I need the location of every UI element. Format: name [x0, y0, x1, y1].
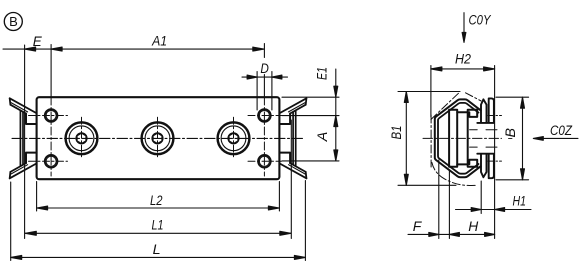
dimension H: [449, 170, 494, 239]
svg-text:A: A: [314, 132, 330, 143]
right clip web: [293, 111, 296, 166]
hole bottom-left: [29, 155, 68, 168]
svg-text:B: B: [9, 14, 18, 29]
dimension E: [3, 33, 51, 239]
right clip blade bottom: [280, 153, 307, 179]
dimension L2: [37, 182, 280, 212]
svg-text:H1: H1: [513, 193, 527, 209]
left clip blade bottom: [10, 153, 37, 179]
svg-text:H: H: [468, 218, 479, 234]
dimension L1: [25, 120, 291, 239]
rail web: [457, 112, 468, 164]
svg-text:C0Y: C0Y: [469, 12, 492, 27]
hole column centerline left: [50, 45, 52, 98]
dimension H1: [456, 181, 532, 214]
main horizontal centerline: [12, 137, 304, 139]
dimension E1: [282, 67, 339, 161]
rail bracket (C shape with stepped arms): [449, 110, 477, 167]
screw S2: [142, 117, 174, 159]
clip phantom open position: [431, 92, 481, 186]
tab centerline top: [488, 115, 502, 117]
dimension B1: [388, 92, 460, 186]
svg-text:L: L: [153, 241, 161, 257]
position marker circled B: [4, 13, 22, 31]
dimension A: [282, 116, 339, 161]
cavity lip lines: [470, 130, 497, 147]
svg-text:L1: L1: [152, 217, 164, 233]
hole column centerline right: [263, 44, 265, 58]
axis arrow C0Z: [533, 123, 578, 141]
screw S3: [218, 117, 250, 159]
clip outer profile (section): [435, 99, 481, 177]
section horizontal centerline: [423, 137, 502, 139]
body outline (front view): [37, 97, 280, 179]
svg-text:A1: A1: [151, 32, 167, 48]
svg-text:F: F: [413, 218, 423, 234]
svg-text:D: D: [260, 60, 269, 76]
hole top-left: [29, 109, 68, 122]
top tab: [477, 98, 494, 123]
hole top-right: [248, 109, 282, 122]
svg-text:B: B: [502, 128, 518, 138]
svg-text:E: E: [33, 33, 43, 49]
svg-text:L2: L2: [150, 192, 163, 208]
left clip blade top: [10, 98, 37, 124]
screw S1: [66, 117, 98, 159]
svg-text:H2: H2: [455, 50, 471, 66]
hole bottom-right: [248, 155, 282, 168]
dimension B: [496, 97, 529, 180]
svg-text:C0Z: C0Z: [550, 123, 573, 138]
left clip web: [20, 111, 23, 166]
axis arrow C0Y: [462, 12, 491, 42]
dimension A1: [51, 32, 264, 51]
dimension L: [11, 181, 306, 261]
right clip blade top: [280, 98, 307, 124]
svg-text:E1: E1: [314, 67, 330, 80]
bottom tab: [477, 154, 494, 179]
dimension H2: [431, 50, 495, 238]
dimension D: [242, 60, 288, 110]
dimension F: [408, 160, 449, 239]
tab centerline bottom: [488, 160, 502, 162]
svg-text:B1: B1: [388, 126, 404, 140]
